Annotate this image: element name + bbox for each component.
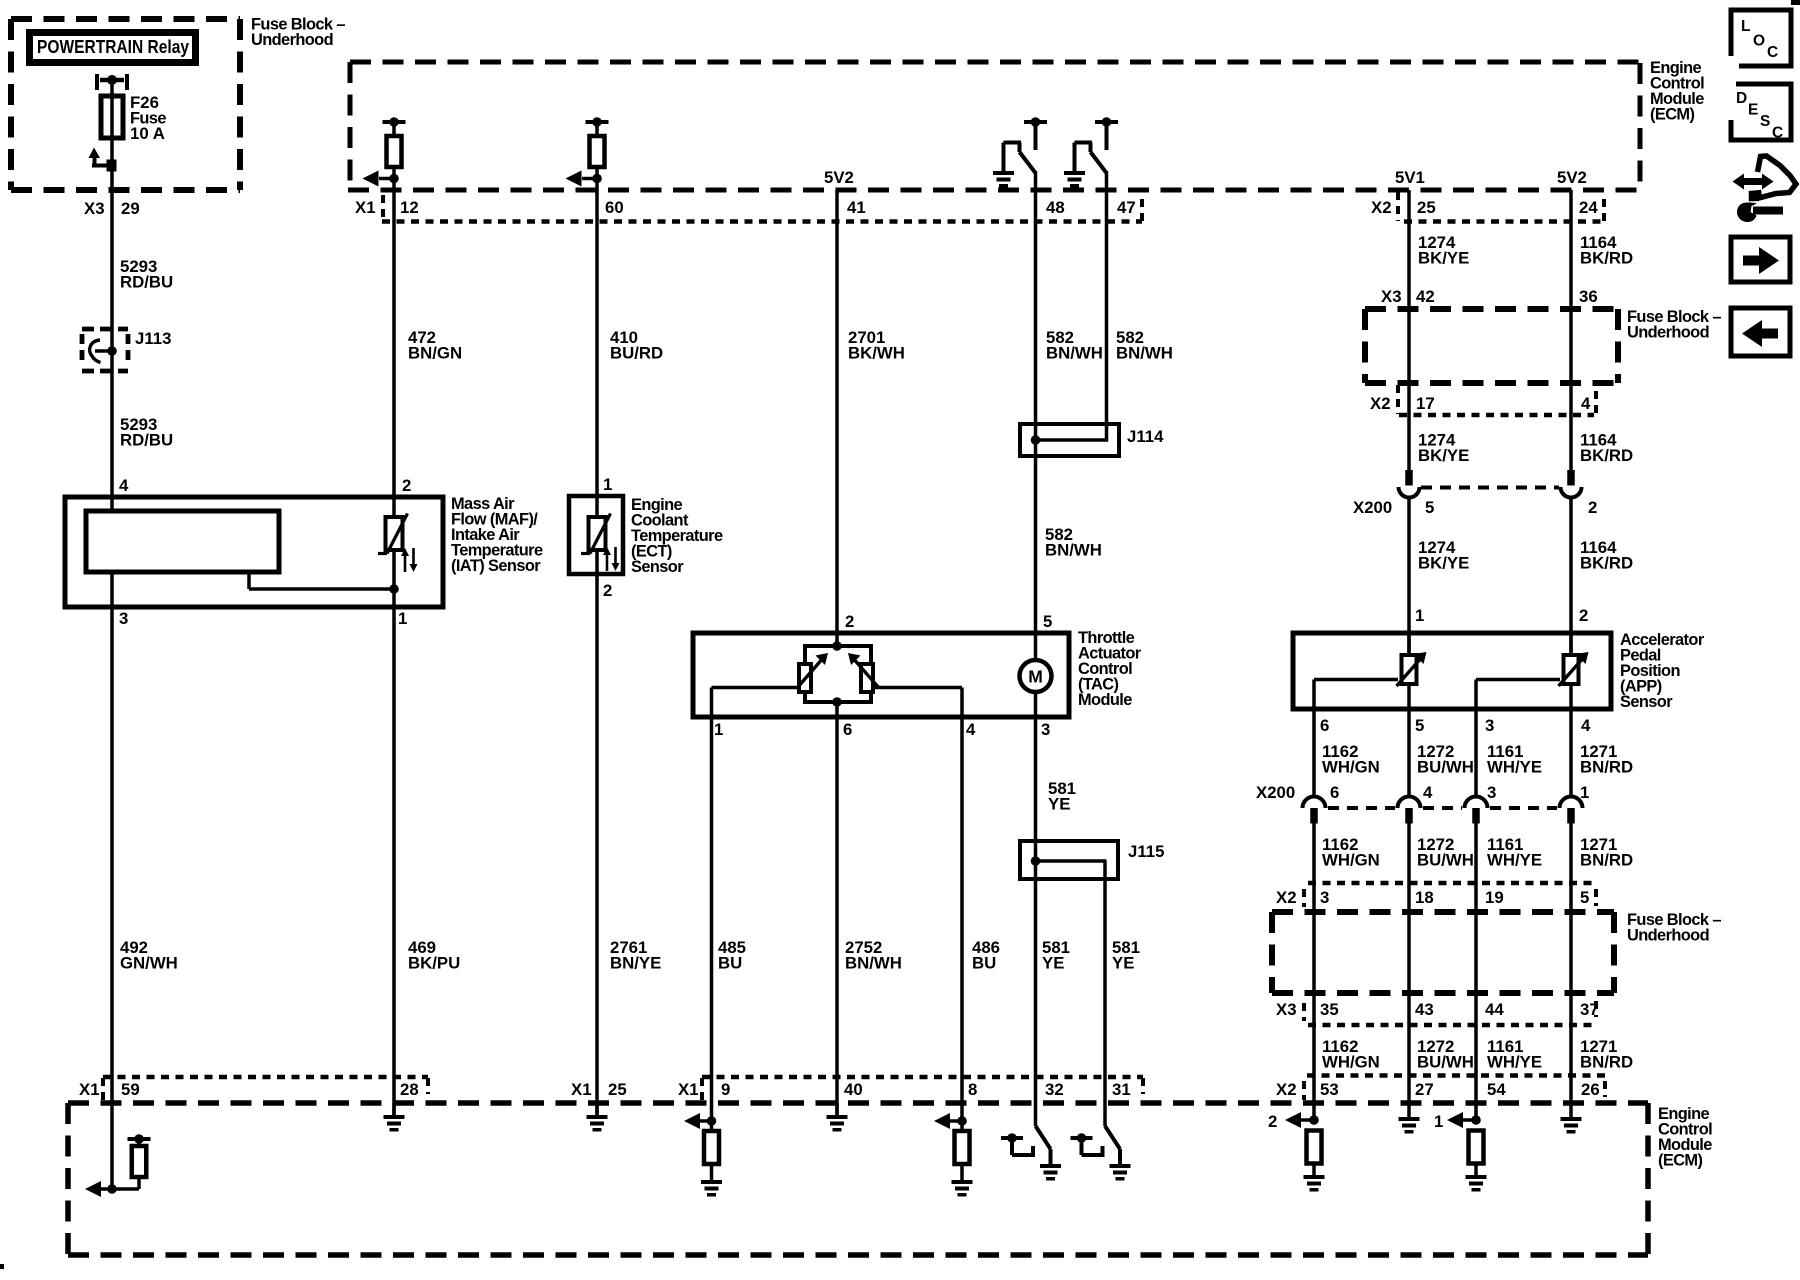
relay K powertrain contact xyxy=(95,74,129,90)
MAF pin 2 label xyxy=(402,476,411,495)
wire 1274 BK/YE seg1 xyxy=(1407,190,1411,470)
connector X3 separator (35) xyxy=(1302,1003,1306,1021)
svg-text:4: 4 xyxy=(1423,783,1433,802)
APP pin 5 label xyxy=(1415,716,1424,735)
svg-text:BK/RD: BK/RD xyxy=(1580,554,1633,573)
wire 2761 BN/YE xyxy=(595,574,599,1116)
connector X1 pin 59/28 labels xyxy=(79,1080,419,1099)
wire labels row (below lower fuse block) xyxy=(1322,1037,1633,1072)
ECM internal supply resistor (pin 12) xyxy=(363,117,406,190)
svg-text:3: 3 xyxy=(1041,720,1050,739)
wire 1161 WH/YE seg1 xyxy=(1474,709,1478,797)
TAC pin 4 label xyxy=(966,720,976,739)
wire 1164 BK/RD label (2) xyxy=(1580,431,1633,466)
fuse block underhood box (top left) xyxy=(11,19,240,190)
connector X1 pin 9/40/8/32/31 labels xyxy=(678,1080,1131,1099)
connector X2 separator (17) xyxy=(1396,385,1400,414)
svg-text:E: E xyxy=(1748,102,1758,119)
svg-text:35: 35 xyxy=(1320,1000,1339,1019)
sidebar wrench arrows icon xyxy=(1733,156,1797,222)
fuse block underhood box (right upper) xyxy=(1365,309,1618,383)
wire 1274 BK/YE label (3) xyxy=(1418,538,1469,573)
connector X200 dashed line (lower) xyxy=(1328,806,1557,810)
TAC pin 2 label xyxy=(845,612,854,631)
svg-text:WH/GN: WH/GN xyxy=(1322,758,1380,777)
connector nub (pin 37) xyxy=(1594,1001,1598,1017)
connector nub (pin 28) xyxy=(426,1078,430,1094)
page corner mark (top right) xyxy=(1791,0,1800,5)
ECM top connector dotted line (left) xyxy=(382,219,1142,224)
connector X2 separator (3) xyxy=(1302,889,1306,907)
wire 1162 WH/GN seg2 xyxy=(1312,823,1316,1120)
connector X2 pin row labels xyxy=(1371,198,1598,217)
TAC module box xyxy=(693,633,1069,717)
svg-text:27: 27 xyxy=(1415,1080,1434,1099)
APP pin 4 label xyxy=(1581,716,1591,735)
svg-text:X3: X3 xyxy=(84,199,105,218)
wire labels row (below X200) xyxy=(1322,835,1633,870)
splice J115 xyxy=(1020,841,1118,879)
svg-text:Underhood: Underhood xyxy=(1627,927,1709,945)
connector right nub (pin 24) xyxy=(1602,199,1606,221)
connector X1 dotted line (9..31) xyxy=(702,1075,1143,1080)
svg-text:(ECM): (ECM) xyxy=(1658,1152,1702,1170)
APP potentiometer 2 xyxy=(1559,633,1589,709)
wire label 5293 RD/BU (2) xyxy=(120,415,173,450)
svg-text:5: 5 xyxy=(1415,716,1424,735)
connector X3 pin 29 labels xyxy=(84,199,140,218)
svg-text:41: 41 xyxy=(847,198,866,217)
APP pin 3 label xyxy=(1485,716,1494,735)
svg-text:BN/WH: BN/WH xyxy=(1046,344,1103,363)
svg-text:J113: J113 xyxy=(135,329,171,348)
svg-text:29: 29 xyxy=(121,199,140,218)
svg-text:36: 36 xyxy=(1579,287,1598,306)
svg-text:31: 31 xyxy=(1112,1080,1131,1099)
APP pot wire left xyxy=(1314,680,1398,710)
svg-text:53: 53 xyxy=(1320,1080,1339,1099)
svg-text:BN/GN: BN/GN xyxy=(408,344,462,363)
wire 2701 BK/WH xyxy=(835,190,839,633)
wire 1161 WH/YE seg2 xyxy=(1474,823,1478,1120)
ECM ground (pin 25) xyxy=(587,1103,608,1132)
svg-text:X3: X3 xyxy=(1381,287,1402,306)
wire 1164 BK/RD seg2 xyxy=(1569,498,1573,655)
wire 1164 BK/RD label (1) xyxy=(1580,233,1633,268)
svg-text:WH/YE: WH/YE xyxy=(1487,758,1542,777)
svg-text:2: 2 xyxy=(1268,1112,1277,1131)
TAC pin 3 label xyxy=(1041,720,1050,739)
connector X200 pin 5 symbol xyxy=(1399,470,1420,500)
sidebar LOC icon xyxy=(1724,10,1791,72)
MAF/IAT sensor box xyxy=(65,497,443,607)
svg-text:X2: X2 xyxy=(1276,1080,1297,1099)
svg-text:1: 1 xyxy=(603,475,612,494)
connector X2 dotted line (17/4) xyxy=(1399,413,1594,418)
svg-text:2: 2 xyxy=(845,612,854,631)
connector X200 pin 3 symbol xyxy=(1465,797,1488,824)
svg-text:3: 3 xyxy=(1485,716,1494,735)
wire 469 BK/PU xyxy=(392,607,396,1116)
APP pot wire right xyxy=(1476,680,1560,710)
ECM internal pull-up (pin 59) xyxy=(85,1134,151,1197)
wire 582 BN/WH from pin 47 xyxy=(1105,171,1109,441)
svg-text:S: S xyxy=(1760,113,1770,130)
ECM ground (pin 40) xyxy=(827,1103,848,1132)
svg-text:4: 4 xyxy=(966,720,976,739)
wire 2752 BN/WH label xyxy=(845,938,902,973)
APP sensor label xyxy=(1620,631,1705,711)
svg-text:BN/RD: BN/RD xyxy=(1580,1053,1633,1072)
svg-text:47: 47 xyxy=(1117,198,1136,217)
svg-text:Underhood: Underhood xyxy=(251,31,333,49)
svg-text:Sensor: Sensor xyxy=(631,558,684,576)
connector X200 pin 6 symbol xyxy=(1303,797,1326,824)
APP pin 1 label xyxy=(1415,606,1424,625)
svg-text:BU/WH: BU/WH xyxy=(1417,758,1474,777)
svg-text:BU/WH: BU/WH xyxy=(1417,1053,1474,1072)
connector X3 pin 35/43/44/37 labels xyxy=(1276,1000,1599,1019)
svg-text:J114: J114 xyxy=(1127,427,1164,446)
connector X200 pin 5 label xyxy=(1425,498,1434,517)
ECM internal switch (pin 31) xyxy=(1071,1126,1131,1181)
svg-text:BK/YE: BK/YE xyxy=(1418,446,1469,465)
splice J115 label xyxy=(1128,842,1164,861)
connector X1 dotted line (59/28) xyxy=(103,1075,428,1080)
svg-text:M: M xyxy=(1028,667,1043,687)
MAF/IAT sensor label xyxy=(451,495,543,575)
svg-text:BN/WH: BN/WH xyxy=(1045,541,1102,560)
wire 582 BN/WH from pin 48 xyxy=(1034,171,1038,633)
svg-text:X200: X200 xyxy=(1353,498,1392,517)
svg-text:BU/WH: BU/WH xyxy=(1417,851,1474,870)
svg-text:48: 48 xyxy=(1046,198,1065,217)
wire 581 YE branch xyxy=(1103,861,1107,1126)
wire 485 BU xyxy=(710,717,714,1132)
wire 1164 BK/RD label (3) xyxy=(1580,538,1633,573)
wire 1274 BK/YE label (2) xyxy=(1418,431,1469,466)
svg-text:L: L xyxy=(1741,18,1750,35)
ECT thermistor xyxy=(581,496,620,576)
svg-text:25: 25 xyxy=(1417,198,1436,217)
fuse F26 label xyxy=(130,93,166,143)
wire 472 BN/GN label xyxy=(408,328,462,363)
svg-text:3: 3 xyxy=(1487,783,1496,802)
ECM top label xyxy=(1650,59,1704,124)
wire 2761 BN/YE label xyxy=(610,938,661,973)
wire 581 YE (pin 3) xyxy=(1034,717,1038,1126)
connector X3 pin 42/36 labels xyxy=(1381,287,1598,306)
connector nub (pin 5) xyxy=(1594,889,1598,906)
svg-text:X1: X1 xyxy=(355,198,376,217)
svg-text:C: C xyxy=(1772,125,1783,142)
svg-text:60: 60 xyxy=(605,198,624,217)
ECM top connector dotted line (right) xyxy=(1404,219,1604,224)
svg-text:54: 54 xyxy=(1487,1080,1506,1099)
wire 1272 BU/WH seg1 xyxy=(1407,709,1411,797)
svg-text:43: 43 xyxy=(1415,1000,1434,1019)
svg-text:YE: YE xyxy=(1112,954,1134,973)
wire 410 BU/RD label xyxy=(610,328,663,363)
net label 5V2 (pin 41) xyxy=(824,168,854,187)
connector X2 dotted line (3/18/19/5) xyxy=(1308,881,1597,886)
sidebar back arrow icon xyxy=(1731,308,1790,356)
svg-text:1: 1 xyxy=(1415,606,1424,625)
svg-text:D: D xyxy=(1736,90,1747,107)
ECT sensor box xyxy=(569,496,623,574)
splice J113 label xyxy=(135,329,171,348)
wire 1274 BK/YE seg2 xyxy=(1407,498,1411,655)
connector right nub (pin 47) xyxy=(1140,199,1144,221)
svg-text:(ECM): (ECM) xyxy=(1650,106,1694,124)
ECM internal pull-down (pin 53) xyxy=(1268,1112,1325,1192)
ECM ground (pin 26) xyxy=(1561,1117,1582,1134)
TAC module label xyxy=(1078,629,1142,709)
svg-text:YE: YE xyxy=(1042,954,1064,973)
wire 582 BN/WH label (pin 47) xyxy=(1116,328,1173,363)
svg-text:BN/RD: BN/RD xyxy=(1580,851,1633,870)
svg-text:BU: BU xyxy=(972,954,996,973)
wire 582 BN/WH label (pin 48) xyxy=(1046,328,1103,363)
ECM internal resistor+arrow (pin 9) xyxy=(684,1113,722,1197)
connector X2 dotted line (53..26) xyxy=(1307,1073,1605,1078)
svg-text:RD/BU: RD/BU xyxy=(120,431,173,450)
svg-text:WH/GN: WH/GN xyxy=(1322,851,1380,870)
connector nub (pin 26) xyxy=(1603,1081,1607,1097)
svg-text:X1: X1 xyxy=(79,1080,100,1099)
ECM ground (pin 27) xyxy=(1399,1117,1420,1134)
wire 581 YE label (pin 32) xyxy=(1042,938,1070,973)
APP pin 2 label xyxy=(1579,606,1588,625)
ECM internal pull-down (pin 54) xyxy=(1434,1112,1487,1192)
svg-text:17: 17 xyxy=(1416,394,1435,413)
connector X200 label (upper) xyxy=(1353,498,1392,517)
page corner mark (bottom left) xyxy=(0,1264,4,1269)
svg-text:(IAT) Sensor: (IAT) Sensor xyxy=(451,557,541,575)
ECM internal switch (pin 32) xyxy=(1001,1126,1061,1181)
svg-text:1: 1 xyxy=(714,720,723,739)
wire 469 BK/PU upper xyxy=(392,190,396,497)
ECM bottom label xyxy=(1658,1105,1712,1170)
svg-text:6: 6 xyxy=(843,720,852,739)
svg-text:18: 18 xyxy=(1415,888,1434,907)
wire label 5293 RD/BU (1) xyxy=(120,257,173,292)
svg-text:5V2: 5V2 xyxy=(1557,168,1587,187)
svg-text:X2: X2 xyxy=(1276,888,1297,907)
svg-text:BK/RD: BK/RD xyxy=(1580,446,1633,465)
wire 2701 BK/WH label xyxy=(848,328,905,363)
wire 1271 BN/RD seg1 xyxy=(1569,709,1573,797)
svg-text:BU/RD: BU/RD xyxy=(610,344,663,363)
svg-text:5: 5 xyxy=(1043,612,1052,631)
ECM bottom dashed box xyxy=(68,1103,1648,1255)
svg-text:28: 28 xyxy=(400,1080,419,1099)
svg-text:24: 24 xyxy=(1579,198,1598,217)
ECM internal switch to ground (pin 48) xyxy=(993,117,1047,187)
svg-text:5: 5 xyxy=(1580,888,1589,907)
svg-text:2: 2 xyxy=(1579,606,1588,625)
connector nub (pin 4) xyxy=(1594,391,1598,414)
APP pin 6 label xyxy=(1320,716,1329,735)
svg-text:X2: X2 xyxy=(1371,198,1392,217)
svg-text:5V1: 5V1 xyxy=(1395,168,1425,187)
svg-text:2: 2 xyxy=(1588,498,1597,517)
fuse F26 xyxy=(101,96,123,138)
svg-text:X2: X2 xyxy=(1370,394,1391,413)
wire 1272 BU/WH seg2 xyxy=(1407,823,1411,1118)
svg-text:Underhood: Underhood xyxy=(1627,324,1709,342)
svg-text:1: 1 xyxy=(1580,783,1589,802)
wire 2752 BN/WH xyxy=(835,702,839,1116)
svg-text:X3: X3 xyxy=(1276,1000,1297,1019)
POWERTRAIN Relay label box xyxy=(30,33,196,63)
splice J114 label xyxy=(1127,427,1164,446)
relay switch contact xyxy=(89,148,117,172)
svg-text:BK/PU: BK/PU xyxy=(408,954,460,973)
svg-text:26: 26 xyxy=(1581,1080,1600,1099)
APP sensor box xyxy=(1293,633,1611,709)
svg-text:RD/BU: RD/BU xyxy=(120,273,173,292)
wire 492 GN/WH label xyxy=(120,938,178,973)
svg-text:10 A: 10 A xyxy=(130,124,165,143)
MAF pin 1 label xyxy=(398,609,407,628)
fuse block underhood label (top left) xyxy=(251,16,345,50)
svg-text:BN/WH: BN/WH xyxy=(845,954,902,973)
splice J114 xyxy=(1020,424,1119,456)
svg-text:WH/YE: WH/YE xyxy=(1487,851,1542,870)
svg-text:8: 8 xyxy=(968,1080,977,1099)
svg-text:Module: Module xyxy=(1078,691,1132,709)
wire 486 BU xyxy=(960,717,964,1132)
TAC motor M xyxy=(1020,633,1052,717)
MAF IAT thermistor xyxy=(378,497,418,609)
connector X1 pin row labels xyxy=(355,198,1136,217)
wire 469 BK/PU label xyxy=(408,938,460,973)
connector X3 dotted line (35/43/44/37) xyxy=(1308,1023,1597,1028)
TAC pin 5 label xyxy=(1043,612,1052,631)
svg-text:5: 5 xyxy=(1425,498,1434,517)
wire 492 GN/WH xyxy=(110,607,114,1189)
MAF pin 3 label xyxy=(119,609,128,628)
connector X200 pin 1 symbol xyxy=(1560,797,1583,824)
TAC pot wire right xyxy=(874,688,962,718)
svg-text:59: 59 xyxy=(121,1080,140,1099)
svg-text:6: 6 xyxy=(1320,716,1329,735)
connector X1 separator xyxy=(381,195,385,221)
svg-text:40: 40 xyxy=(844,1080,863,1099)
connector X200 dashed line (upper) xyxy=(1421,486,1559,490)
svg-text:WH/GN: WH/GN xyxy=(1322,1053,1380,1072)
svg-text:12: 12 xyxy=(400,198,419,217)
svg-text:GN/WH: GN/WH xyxy=(120,954,178,973)
TAC pin 6 label xyxy=(843,720,852,739)
svg-text:X200: X200 xyxy=(1256,783,1295,802)
ECM internal supply resistor (pin 60) xyxy=(566,117,609,190)
svg-text:X1: X1 xyxy=(678,1080,699,1099)
connector nub (pin 31) xyxy=(1141,1078,1145,1094)
wire 1162 WH/GN seg1 xyxy=(1312,709,1316,797)
svg-text:19: 19 xyxy=(1485,888,1504,907)
svg-text:4: 4 xyxy=(1581,394,1591,413)
svg-text:5V2: 5V2 xyxy=(824,168,854,187)
wire 5293 RD/BU upper xyxy=(110,80,114,497)
net label 5V1 xyxy=(1395,168,1425,187)
MAF inner element xyxy=(86,497,399,609)
svg-text:BK/RD: BK/RD xyxy=(1580,249,1633,268)
svg-text:J115: J115 xyxy=(1128,842,1164,861)
wire 582 BN/WH below J114 label xyxy=(1045,525,1102,560)
wire 1271 BN/RD seg2 xyxy=(1569,823,1573,1118)
ECT pin 1 label xyxy=(603,475,612,494)
svg-text:2: 2 xyxy=(402,476,411,495)
svg-text:BU: BU xyxy=(718,954,742,973)
sidebar DESC icon xyxy=(1722,80,1791,142)
svg-text:POWERTRAIN Relay: POWERTRAIN Relay xyxy=(37,37,189,57)
APP potentiometer 1 xyxy=(1397,633,1427,709)
connector X1 separator (59) xyxy=(101,1078,105,1100)
svg-text:BK/YE: BK/YE xyxy=(1418,249,1469,268)
connector X2 pin 17/4 labels xyxy=(1370,394,1591,413)
TAC dual potentiometer xyxy=(797,633,879,707)
connector X200 pin 4 symbol xyxy=(1398,797,1421,824)
MAF pin 4 label xyxy=(119,476,129,495)
connector X200 pin 2 symbol xyxy=(1561,470,1582,500)
wire 581 YE label (pin 31) xyxy=(1112,938,1140,973)
connector X2 pin 53/27/54/26 labels xyxy=(1276,1080,1600,1099)
connector X1 separator (9) xyxy=(700,1078,704,1100)
svg-text:4: 4 xyxy=(1581,716,1591,735)
TAC pot wire left xyxy=(712,688,801,718)
svg-text:BN/RD: BN/RD xyxy=(1580,758,1633,777)
wire labels row (below APP) xyxy=(1322,742,1633,777)
ECM internal resistor+arrow (pin 8) xyxy=(934,1113,973,1197)
connector X1 pin 25 labels xyxy=(571,1080,627,1099)
svg-text:YE: YE xyxy=(1048,795,1070,814)
sidebar forward arrow icon xyxy=(1731,237,1790,282)
wire 410 BU/RD vertical xyxy=(595,190,599,496)
connector X200 pin 2 label xyxy=(1588,498,1597,517)
svg-text:WH/YE: WH/YE xyxy=(1487,1053,1542,1072)
svg-text:BK/WH: BK/WH xyxy=(848,344,905,363)
connector X200 lower pin labels xyxy=(1330,783,1589,802)
svg-text:1: 1 xyxy=(398,609,407,628)
ECM top dashed box xyxy=(348,62,1640,190)
svg-text:1: 1 xyxy=(1434,1112,1443,1131)
ECM internal switch to ground (pin 47) xyxy=(1064,117,1118,187)
fuse block underhood label (right lower) xyxy=(1627,911,1721,945)
svg-text:44: 44 xyxy=(1485,1000,1504,1019)
svg-text:BN/WH: BN/WH xyxy=(1116,344,1173,363)
svg-text:Sensor: Sensor xyxy=(1620,693,1673,711)
connector X2 separator (top right) xyxy=(1396,192,1400,221)
ECM ground (pin 28) xyxy=(384,1103,405,1132)
svg-text:2: 2 xyxy=(603,581,612,600)
splice J113 xyxy=(82,329,128,371)
fuse block underhood box (right lower) xyxy=(1272,912,1614,993)
svg-text:BK/YE: BK/YE xyxy=(1418,554,1469,573)
svg-text:9: 9 xyxy=(721,1080,730,1099)
fuse block underhood label (right upper) xyxy=(1627,308,1721,342)
wire 581 YE label (upper) xyxy=(1048,779,1076,814)
wire 486 BU label xyxy=(972,938,1000,973)
ECT sensor label xyxy=(631,496,723,576)
svg-text:4: 4 xyxy=(119,476,129,495)
connector X200 label (lower) xyxy=(1256,783,1295,802)
svg-text:3: 3 xyxy=(119,609,128,628)
svg-text:X1: X1 xyxy=(571,1080,592,1099)
svg-text:O: O xyxy=(1753,33,1765,50)
svg-text:42: 42 xyxy=(1416,287,1435,306)
